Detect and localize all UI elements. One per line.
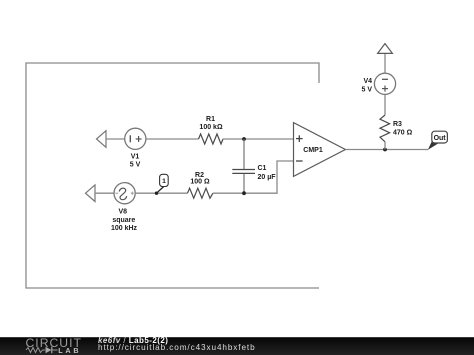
ground (flag) for V8 bbox=[86, 185, 96, 202]
svg-text:Out: Out bbox=[434, 135, 447, 142]
svg-text:5 V: 5 V bbox=[130, 162, 141, 169]
svg-text:5 V: 5 V bbox=[361, 87, 372, 94]
node junction bbox=[242, 191, 246, 195]
node 1 flag leader bbox=[157, 187, 164, 194]
node 1 flag box bbox=[160, 174, 169, 186]
svg-text:100 kHz: 100 kHz bbox=[111, 225, 138, 232]
svg-text:square: square bbox=[112, 217, 135, 224]
svg-text:CMP1: CMP1 bbox=[303, 147, 323, 154]
node 1 flag junction bbox=[155, 192, 158, 195]
Out flag box bbox=[432, 131, 448, 143]
logo diode bbox=[46, 347, 52, 353]
svg-text:V8: V8 bbox=[119, 208, 128, 215]
wire bbox=[213, 161, 294, 193]
wire big loop bbox=[26, 63, 319, 288]
node junction bbox=[242, 137, 246, 141]
svg-text:V4: V4 bbox=[363, 78, 372, 85]
wire bbox=[95, 192, 114, 194]
voltage source V1 bbox=[125, 128, 146, 149]
wire output bbox=[345, 149, 428, 151]
resistor R1 bbox=[199, 134, 224, 144]
svg-text:100 kΩ: 100 kΩ bbox=[199, 124, 223, 131]
node junction output bbox=[383, 148, 387, 152]
voltage source V8 (square) bbox=[114, 183, 135, 204]
svg-text:1: 1 bbox=[162, 178, 166, 185]
svg-text:LAB: LAB bbox=[58, 346, 81, 355]
wire bbox=[223, 138, 294, 140]
logo resistor zigzag bbox=[26, 348, 45, 353]
svg-text:V1: V1 bbox=[131, 153, 140, 160]
ground (flag) for V1 bbox=[97, 131, 107, 148]
svg-text:R1: R1 bbox=[206, 116, 215, 123]
svg-text:470 Ω: 470 Ω bbox=[393, 130, 413, 137]
op-amp comparator CMP1 bbox=[294, 123, 346, 177]
wire bbox=[384, 53, 386, 73]
capacitor C1 bbox=[232, 139, 255, 193]
wire bbox=[106, 138, 125, 140]
bottom bar bbox=[0, 337, 474, 355]
wire bbox=[146, 138, 199, 140]
svg-text:100 Ω: 100 Ω bbox=[190, 179, 210, 186]
svg-text:C1: C1 bbox=[258, 165, 267, 172]
resistor R3 bbox=[380, 115, 390, 142]
wire bbox=[384, 94, 386, 115]
svg-text:http://circuitlab.com/c43xu4hb: http://circuitlab.com/c43xu4hbxfetb bbox=[98, 343, 256, 352]
svg-text:R3: R3 bbox=[393, 121, 402, 128]
wire bbox=[384, 142, 386, 150]
voltage source V4 bbox=[374, 73, 395, 94]
svg-text:20 µF: 20 µF bbox=[258, 174, 277, 181]
wire bbox=[135, 192, 187, 194]
Out flag tail bbox=[428, 140, 439, 150]
vcc arrow bbox=[378, 44, 393, 54]
resistor R2 bbox=[188, 188, 213, 198]
